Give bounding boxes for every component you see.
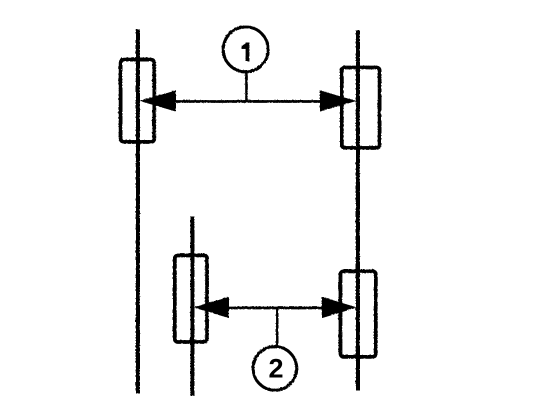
svg-text:2: 2 (268, 354, 283, 384)
